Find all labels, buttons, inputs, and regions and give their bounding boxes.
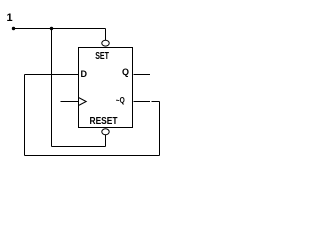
wire: D feedback horizontal into D pin xyxy=(25,74,79,76)
flip-flop U1 body xyxy=(79,48,133,128)
wire: right feedback vertical from ~Q xyxy=(159,102,161,156)
wire: top net from node 1 to SET stem xyxy=(14,28,106,30)
wire: short link from ~Q stub to right vertical xyxy=(152,101,160,103)
wire: RESET stem from RESET bubble to inner bottom wire xyxy=(105,135,107,147)
RESET bubble (active-low) xyxy=(102,129,109,135)
pin stub: Q output (unconnected) xyxy=(134,74,151,76)
pin stub: clock input (unconnected) xyxy=(61,101,79,103)
junction dot: node 1 output terminal xyxy=(12,27,15,30)
svg-text:D: D xyxy=(81,69,88,79)
clock edge-trigger triangle xyxy=(79,98,87,106)
wire: left feedback vertical xyxy=(24,75,26,156)
wire: outer bottom horizontal xyxy=(25,155,160,157)
wire: SET stem from top wire to SET bubble xyxy=(105,29,107,41)
svg-text:RESET: RESET xyxy=(90,116,119,127)
svg-text:1: 1 xyxy=(7,12,13,24)
svg-text:~Q: ~Q xyxy=(116,95,125,105)
wire: vertical branch from top-wire junction down xyxy=(51,29,53,147)
junction dot: top wire branch xyxy=(50,27,53,30)
svg-text:Q: Q xyxy=(122,67,129,77)
wire: inner bottom horizontal to RESET stem xyxy=(52,146,106,148)
SET bubble (active-low) xyxy=(102,40,109,46)
svg-text:SET: SET xyxy=(95,51,109,62)
pin stub: ~Q output xyxy=(134,101,151,103)
